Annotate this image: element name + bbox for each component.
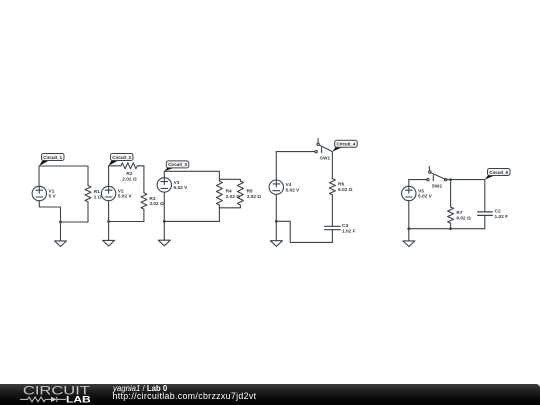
svg-text:C3: C3 xyxy=(342,223,348,229)
svg-text:Circuit_2: Circuit_2 xyxy=(112,155,131,160)
resistor R3 xyxy=(141,166,164,222)
switch SW2 xyxy=(427,166,447,189)
resistor R4 xyxy=(216,181,240,206)
svg-text:V3: V3 xyxy=(174,180,180,186)
resistor R2 xyxy=(121,163,140,183)
svg-text:C2: C2 xyxy=(495,209,501,215)
capacitor C3 xyxy=(325,223,356,242)
svg-text:LAB: LAB xyxy=(66,395,91,405)
svg-text:1.02 F: 1.02 F xyxy=(495,214,509,220)
flag Circuit_4 xyxy=(332,140,357,151)
wire V3 bottom xyxy=(163,192,165,221)
svg-text:3.02 Ω: 3.02 Ω xyxy=(149,201,164,207)
svg-text:6.02 Ω: 6.02 Ω xyxy=(456,216,471,222)
junction dot circuit2 xyxy=(107,220,110,223)
svg-text:R4: R4 xyxy=(226,189,232,195)
svg-text:SW1: SW1 xyxy=(320,156,331,162)
wire bottom circuit1 xyxy=(61,221,89,223)
resistor R1 xyxy=(85,166,102,222)
junction dot R7 bottom circuit5 xyxy=(449,227,452,230)
svg-text:3.02 Ω: 3.02 Ω xyxy=(247,194,262,200)
svg-text:Circuit_4: Circuit_4 xyxy=(337,142,356,147)
svg-text:R2: R2 xyxy=(126,171,132,177)
wire bottom circuit3 xyxy=(164,220,219,222)
ground circuit4 xyxy=(270,221,282,246)
junction dot circuit3 xyxy=(163,220,166,223)
ground circuit1 xyxy=(55,222,67,247)
voltage source V4 xyxy=(269,180,300,194)
svg-text:1.02 F: 1.02 F xyxy=(342,228,356,234)
capacitor C2 xyxy=(478,180,509,229)
svg-text:R1: R1 xyxy=(94,189,100,195)
flag Circuit_5 xyxy=(485,169,510,180)
wire top-right circuit2 xyxy=(140,165,144,167)
ground circuit3 xyxy=(158,221,170,245)
wire bottom circuit5 xyxy=(409,228,485,230)
junction dot circuit1 xyxy=(59,221,62,224)
junction dot bottom-left circuit5 xyxy=(407,227,410,230)
wire left circuit4 xyxy=(275,152,277,180)
junction dot top circuit5 xyxy=(449,178,452,181)
wire bottom jog circuit4 xyxy=(276,221,332,242)
wire split bar circuit3 xyxy=(219,179,240,181)
svg-text:5 V: 5 V xyxy=(49,194,57,200)
wire V2 bottom xyxy=(108,201,110,222)
wire top circuit1 xyxy=(39,165,88,167)
switch SW1 xyxy=(315,139,333,162)
svg-text:6.02 Ω: 6.02 Ω xyxy=(338,187,353,193)
ground circuit5 xyxy=(403,229,415,247)
flag Circuit_1 xyxy=(39,154,64,167)
wire bottom circuit2 xyxy=(109,221,144,223)
junction dot circuit4 xyxy=(275,220,278,223)
wire right down circuit3 xyxy=(218,208,220,222)
wire top-right circuit5 xyxy=(447,179,485,181)
svg-text:R5: R5 xyxy=(247,189,253,195)
svg-text:V1: V1 xyxy=(49,189,55,195)
svg-text:5.02 V: 5.02 V xyxy=(118,194,133,200)
wire merge bar circuit3 xyxy=(219,206,240,208)
wire left circuit1 xyxy=(38,166,40,186)
svg-text:Circuit_1: Circuit_1 xyxy=(43,155,62,160)
resistor R6 xyxy=(329,152,352,227)
wire top-left circuit2 xyxy=(109,165,121,167)
wire left circuit5 xyxy=(408,180,410,187)
svg-text:Circuit_3: Circuit_3 xyxy=(168,162,187,167)
wire top-left circuit5 xyxy=(409,179,427,181)
svg-text:V5: V5 xyxy=(418,189,424,195)
svg-text:5.02 V: 5.02 V xyxy=(174,185,189,191)
wire top circuit4 xyxy=(276,151,315,153)
svg-text:2.02 Ω: 2.02 Ω xyxy=(122,176,137,182)
svg-text:5.02 V: 5.02 V xyxy=(418,194,433,200)
voltage source V1 xyxy=(32,186,56,200)
svg-text:R3: R3 xyxy=(149,196,155,202)
wire left circuit2 xyxy=(108,166,110,187)
flag Circuit_3 xyxy=(164,161,189,171)
wire left circuit3 xyxy=(163,171,165,177)
svg-text:5.02 V: 5.02 V xyxy=(286,187,301,193)
svg-text:R7: R7 xyxy=(456,210,462,216)
wire V5 bottom xyxy=(408,201,410,229)
wire V1 bottom jog xyxy=(39,201,60,222)
wire right drop circuit3 xyxy=(218,171,220,181)
resistor R5 xyxy=(237,181,261,206)
svg-text:V2: V2 xyxy=(118,189,124,195)
flag Circuit_2 xyxy=(109,154,133,166)
ground circuit2 xyxy=(103,222,115,247)
svg-text:V4: V4 xyxy=(286,182,292,188)
voltage source V2 xyxy=(101,186,132,200)
resistor R7 xyxy=(448,180,471,229)
svg-text:R6: R6 xyxy=(338,182,344,188)
svg-text:Circuit_5: Circuit_5 xyxy=(489,170,508,175)
svg-text:1 Ω: 1 Ω xyxy=(94,194,102,200)
wire V4 bottom xyxy=(275,194,277,221)
wire top circuit3 xyxy=(164,170,219,172)
voltage source V3 xyxy=(157,178,188,192)
svg-text:SW2: SW2 xyxy=(432,184,443,190)
voltage source V5 xyxy=(402,186,433,200)
